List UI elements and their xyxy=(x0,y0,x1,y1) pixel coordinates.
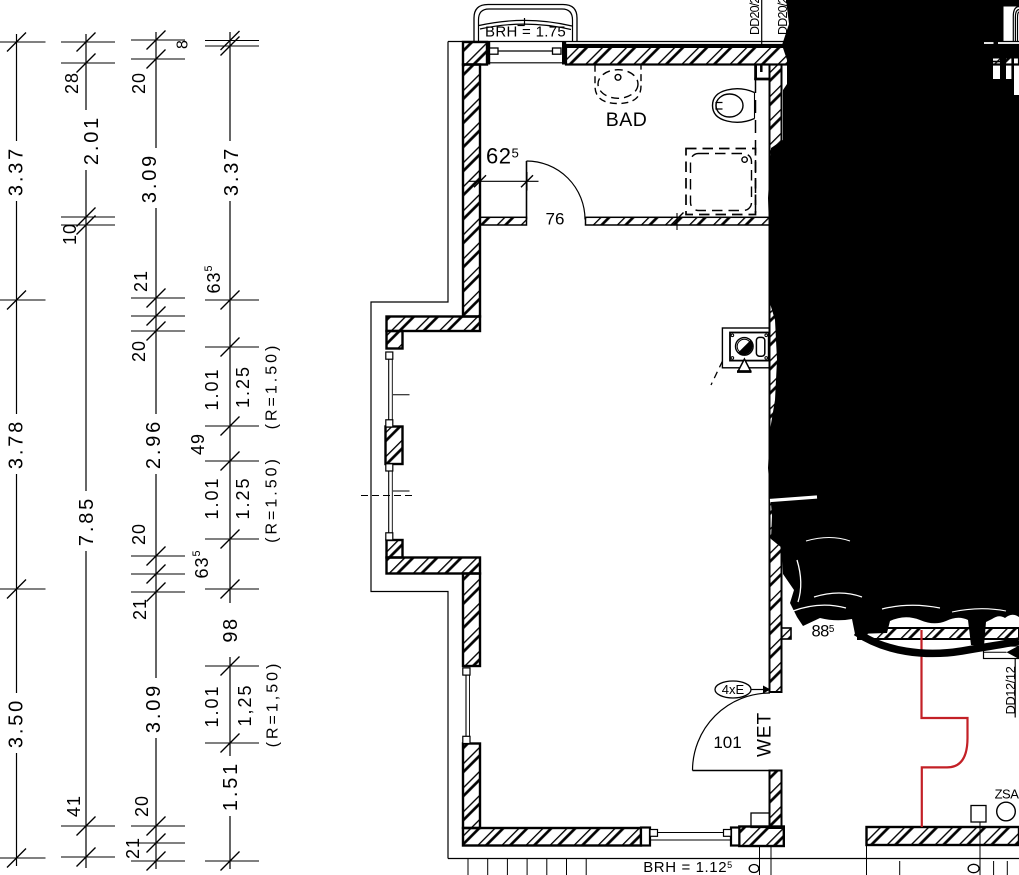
svg-text:WET: WET xyxy=(755,712,776,757)
svg-text:98: 98 xyxy=(220,617,242,642)
svg-text:3.78: 3.78 xyxy=(6,419,28,469)
svg-text:2.96: 2.96 xyxy=(143,419,165,469)
svg-text:BRH = 1.125: BRH = 1.125 xyxy=(643,859,733,875)
svg-text:DD20/24: DD20/24 xyxy=(748,0,762,35)
svg-text:7.85: 7.85 xyxy=(76,496,98,546)
svg-text:3.09: 3.09 xyxy=(143,683,165,733)
svg-text:28: 28 xyxy=(62,72,82,94)
svg-text:ZSA: ZSA xyxy=(995,787,1019,802)
svg-text:(R=1.50): (R=1.50) xyxy=(264,456,281,543)
svg-text:76: 76 xyxy=(546,210,565,229)
svg-text:1.01: 1.01 xyxy=(202,367,222,410)
svg-text:(R=1.50): (R=1.50) xyxy=(264,343,281,430)
svg-text:3.37: 3.37 xyxy=(221,146,243,196)
svg-text:41: 41 xyxy=(64,795,84,817)
svg-text:1.25: 1.25 xyxy=(233,476,253,519)
svg-text:2.01: 2.01 xyxy=(81,115,103,165)
svg-text:1.51: 1.51 xyxy=(220,761,242,811)
svg-text:21: 21 xyxy=(131,270,151,292)
svg-text:(R=1,50): (R=1,50) xyxy=(265,661,282,748)
svg-text:3.37: 3.37 xyxy=(6,146,28,196)
svg-text:20: 20 xyxy=(129,523,149,545)
svg-text:1,25: 1,25 xyxy=(235,683,255,726)
svg-text:4xE: 4xE xyxy=(722,682,745,697)
svg-text:21: 21 xyxy=(123,837,143,859)
svg-text:20: 20 xyxy=(129,340,149,362)
svg-text:BAD: BAD xyxy=(606,109,648,131)
svg-text:3.09: 3.09 xyxy=(139,153,161,203)
svg-text:20: 20 xyxy=(129,72,149,94)
svg-text:BRH = 1.75: BRH = 1.75 xyxy=(485,24,566,41)
svg-text:10: 10 xyxy=(60,223,80,245)
svg-text:20: 20 xyxy=(132,795,152,817)
svg-text:1.25: 1.25 xyxy=(233,365,253,408)
svg-text:49: 49 xyxy=(188,433,208,455)
svg-text:3.50: 3.50 xyxy=(6,698,28,748)
svg-text:21: 21 xyxy=(130,598,150,620)
svg-text:1.01: 1.01 xyxy=(202,476,222,519)
svg-text:101: 101 xyxy=(713,733,741,752)
svg-text:8: 8 xyxy=(175,39,192,49)
svg-text:1.01: 1.01 xyxy=(202,684,222,727)
